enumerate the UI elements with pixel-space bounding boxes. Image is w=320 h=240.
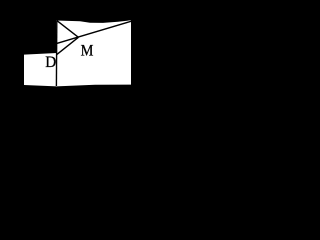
large sheet quadrilateral (white, slightly bowed edges) — [56, 20, 131, 86]
svg-text:D: D — [45, 54, 56, 71]
line from D to M — [57, 37, 79, 54]
long diagonal line from point E on left edge through M to top-right corner — [57, 21, 132, 43]
line from top-left corner to M — [57, 21, 78, 38]
left edge of large sheet (vertical dividing line) — [55, 21, 57, 86]
small left rectangle (white block) — [24, 53, 57, 86]
svg-text:M: M — [81, 42, 94, 59]
